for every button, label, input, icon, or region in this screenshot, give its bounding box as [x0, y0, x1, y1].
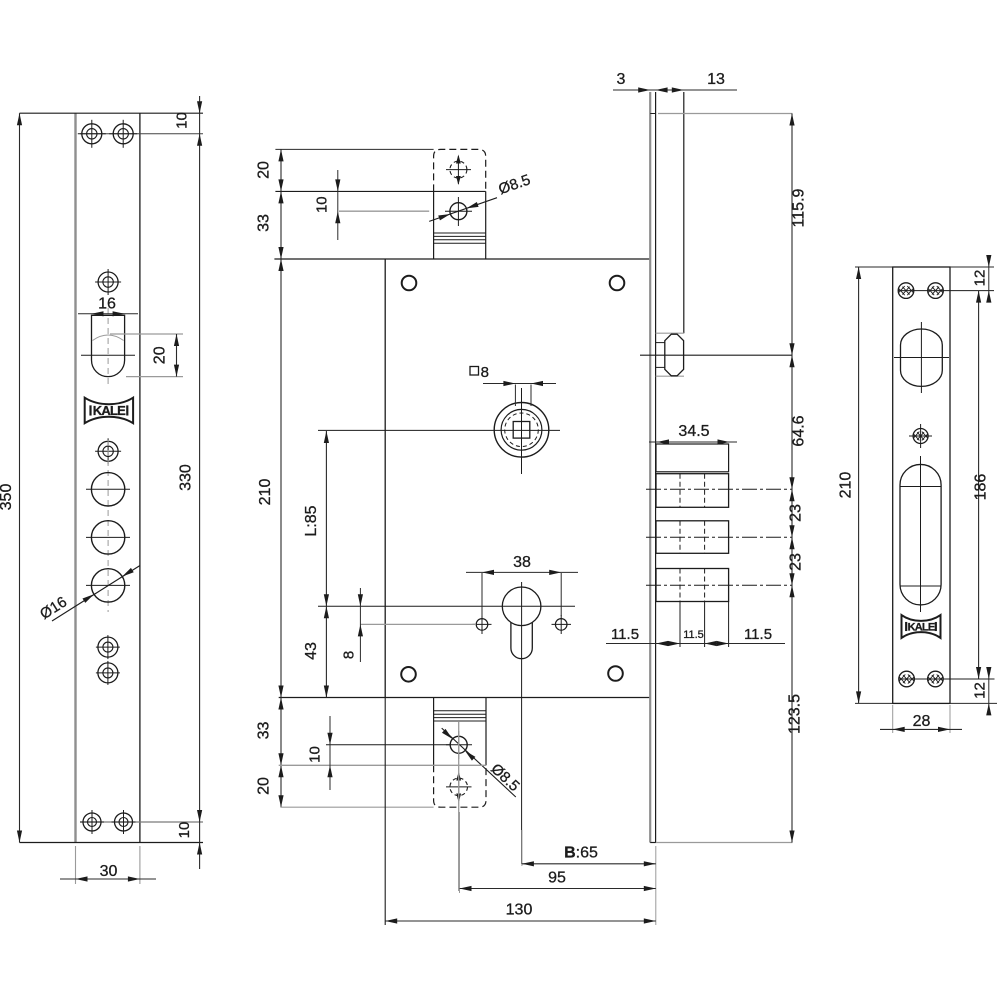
pin 2 centerline: [646, 536, 792, 538]
left dimension column 20 33 210 33 20: [280, 149, 282, 807]
case corner hole top-left: [402, 276, 417, 291]
svg-text:186: 186: [973, 474, 990, 501]
svg-text:30: 30: [100, 863, 118, 880]
KALE logo front plate: [85, 398, 133, 424]
auxiliary latch bolt: [656, 332, 684, 334]
strike bottom screws line: [899, 678, 995, 680]
top tab upper screw hidden: [450, 161, 467, 178]
dim 130: [384, 698, 386, 926]
svg-text:10: 10: [307, 746, 324, 763]
svg-text:8: 8: [481, 364, 489, 381]
svg-text:95: 95: [548, 870, 566, 887]
dim 10 top tab: [337, 170, 339, 240]
bottom tab centerline: [458, 722, 460, 891]
strike bottom screw left: [899, 671, 915, 687]
dia 8.5 leader top: [429, 198, 497, 222]
svg-text:115.9: 115.9: [791, 188, 808, 227]
dim 8 cylinder offset: [359, 588, 361, 662]
strike bottom edge extension: [950, 702, 997, 704]
strike top edge extension: [950, 266, 994, 268]
line through bottom tab screw: [326, 744, 450, 746]
dim 30 plate width: [75, 846, 77, 884]
cylinder fixing screw left: [476, 619, 488, 631]
deadbolt pin 1: [656, 474, 729, 508]
strike bottom screw right: [928, 671, 944, 687]
svg-text:11.5: 11.5: [744, 626, 772, 643]
top mounting tab dashed part: [434, 149, 486, 191]
svg-text:10: 10: [176, 822, 193, 839]
dim B65: [521, 830, 523, 866]
strike deadbolt slot: [900, 464, 941, 605]
top screw hole right: [113, 124, 133, 144]
pin 3 centerline: [646, 584, 792, 586]
deadbolt pin 3: [656, 569, 729, 602]
dim 38 cylinder screws: [481, 573, 483, 616]
case corner hole bottom-right: [608, 666, 623, 681]
top tab top edge extension: [275, 148, 433, 150]
top tab hatch lines: [434, 232, 486, 234]
svg-text:10: 10: [174, 112, 191, 129]
svg-text:43: 43: [303, 642, 320, 660]
svg-text:130: 130: [506, 902, 533, 919]
bottom tab upper screw: [450, 736, 467, 753]
deadbolt pin 2: [656, 521, 729, 554]
euro cylinder hole: [502, 587, 541, 626]
hole above bolt circles: [98, 441, 118, 461]
dim 16 follower width: [78, 313, 138, 315]
faceplate bottom extension line: [656, 842, 792, 844]
follower hub: [494, 403, 549, 458]
svg-text:13: 13: [707, 71, 725, 88]
svg-text:23: 23: [788, 504, 805, 522]
line through cylinder screws: [360, 623, 476, 625]
bottom tab lower screw hidden: [450, 778, 468, 796]
bolt circles vertical centerline: [107, 440, 109, 612]
dim square 8 follower: [514, 385, 516, 407]
svg-text:10: 10: [313, 196, 330, 213]
svg-text:38: 38: [513, 554, 531, 571]
right dimension column 115.9 64.6 23 23 123.5: [791, 114, 793, 843]
strike top screws line: [898, 290, 994, 292]
faceplate front view outline: [74, 113, 76, 842]
svg-text:123.5: 123.5: [787, 694, 804, 734]
latch centerline: [640, 354, 792, 356]
strike middle screw crosshair: [909, 435, 932, 437]
follower square hole front view: [92, 315, 125, 376]
svg-text:L:85: L:85: [303, 505, 320, 536]
bottom mounting tab dashed part: [434, 765, 486, 807]
top screw hole left: [82, 124, 102, 144]
svg-text:210: 210: [838, 472, 855, 499]
svg-text:KALE: KALE: [908, 621, 935, 633]
strike top screw right: [928, 283, 944, 299]
vertical rod side view: [683, 92, 685, 333]
svg-text:20: 20: [256, 777, 273, 795]
bottom mounting tab solid part: [433, 698, 435, 766]
upper small hole: [98, 272, 118, 292]
deadbolt guide block: [656, 444, 729, 472]
svg-text:3: 3: [617, 71, 626, 88]
svg-text:34.5: 34.5: [678, 423, 709, 440]
faceplate side view: [649, 92, 651, 843]
bottom screw hole left: [83, 813, 101, 831]
dim 95: [459, 812, 461, 893]
bolt circle 2: [91, 521, 124, 554]
dim 11.5 triple: [606, 643, 785, 645]
dim 34.5 bolt width: [649, 441, 737, 443]
dim 330 and 10 column: [199, 96, 201, 869]
pin width extension lines: [679, 602, 681, 648]
dim 210 strike: [855, 266, 893, 268]
top tab lower screw: [450, 203, 467, 220]
svg-text:330: 330: [178, 464, 195, 491]
svg-text:23: 23: [788, 553, 805, 571]
svg-text:16: 16: [98, 296, 116, 313]
bolt circle 1: [91, 473, 124, 506]
dia 8.5 leader bottom: [442, 728, 516, 797]
svg-text:B:65: B:65: [564, 845, 598, 862]
case corner hole bottom-left: [401, 667, 416, 682]
svg-text:20: 20: [152, 346, 169, 364]
svg-text:11.5: 11.5: [683, 629, 704, 641]
svg-text:12: 12: [972, 682, 989, 699]
dim 186 strike: [978, 291, 980, 679]
strike top screw left: [898, 283, 914, 299]
dim L85 and 43 column: [325, 431, 327, 698]
dim 350 overall height: [19, 113, 21, 842]
lock case outline: [274, 258, 650, 260]
bolt circle 3: [91, 569, 124, 602]
svg-text:350: 350: [0, 484, 15, 511]
bottom screw hole right: [115, 813, 133, 831]
svg-text:11.5: 11.5: [611, 626, 639, 643]
svg-text:28: 28: [913, 713, 931, 730]
svg-text:210: 210: [257, 479, 274, 506]
door edge line bottom: [279, 764, 486, 766]
faceplate top extension line: [658, 113, 792, 115]
svg-text:33: 33: [256, 214, 273, 232]
svg-text:64.6: 64.6: [791, 415, 808, 446]
svg-text:8: 8: [341, 651, 358, 659]
svg-text:20: 20: [256, 161, 273, 179]
svg-text:KALE: KALE: [93, 403, 126, 418]
strike latch opening: [901, 329, 943, 386]
dim 12 strike bottom: [988, 668, 990, 714]
top screw holes centerline: [80, 133, 203, 135]
case corner hole top-right: [610, 276, 625, 291]
pin 1 centerline: [646, 488, 792, 490]
cylinder fixing screw right: [555, 619, 567, 631]
bottom screw holes centerline: [80, 821, 203, 823]
KALE logo strike plate: [902, 615, 941, 638]
dim 10 bottom tab: [329, 716, 331, 790]
svg-text:33: 33: [256, 722, 273, 740]
strike middle screw: [913, 429, 928, 444]
dim 20 follower height: [110, 333, 183, 335]
line through top tab screw: [339, 210, 429, 212]
dim 28 strike width: [892, 705, 894, 733]
dia 16 leader: [52, 566, 140, 622]
door edge line top: [275, 190, 485, 192]
lower small hole 1: [98, 637, 118, 657]
lower small hole 2: [98, 663, 118, 683]
svg-text:12: 12: [972, 270, 989, 287]
bottom tab hatch lines: [434, 710, 486, 712]
bottom tab bottom edge extension: [280, 806, 433, 808]
top mounting tab solid part: [433, 191, 435, 259]
dim 12 strike top: [988, 256, 990, 302]
strike plate outline: [893, 267, 950, 703]
dim 3 and 13 top: [613, 89, 737, 91]
